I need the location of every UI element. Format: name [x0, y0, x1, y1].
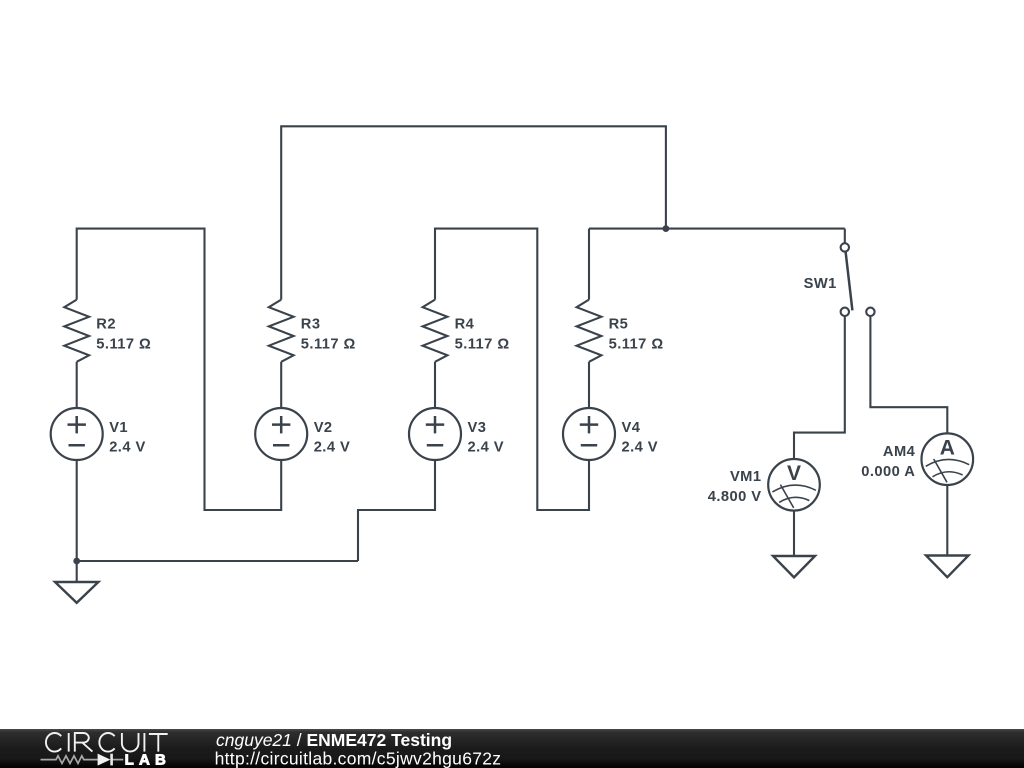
svg-text:A: A [940, 437, 955, 460]
wire VM1 to ground [793, 511, 795, 556]
svg-text:V2: V2 [314, 420, 333, 436]
voltmeter VM1 [768, 459, 820, 511]
svg-text:V1: V1 [109, 420, 128, 436]
wire R5 top lead [588, 229, 590, 300]
svg-text:V4: V4 [622, 420, 641, 436]
svg-text:http://circuitlab.com/c5jwv2hg: http://circuitlab.com/c5jwv2hgu672z [215, 749, 502, 768]
wire R2-top loop to V2 bottom [77, 229, 282, 510]
wire junction to switch common [589, 228, 845, 230]
wire R4-top loop to V4 bottom [435, 229, 589, 510]
svg-text:2.4 V: 2.4 V [314, 439, 351, 455]
wire R3-top to junction (node A) [281, 126, 666, 299]
logo diode triangle [98, 754, 111, 766]
svg-text:cnguye21 / ENME472 Testing: cnguye21 / ENME472 Testing [216, 730, 452, 750]
voltage source V3 [409, 408, 461, 460]
wire R2 bottom to V1 top [76, 362, 78, 409]
wire switch throw2 to AM4 [870, 316, 947, 434]
wire R3 bottom to V2 top [280, 362, 282, 409]
wire R4 bottom to V3 top [434, 362, 436, 409]
svg-text:5.117 Ω: 5.117 Ω [455, 336, 510, 352]
svg-text:V: V [787, 462, 801, 485]
svg-text:AM4: AM4 [883, 444, 916, 460]
switch SW1 [841, 243, 875, 316]
svg-text:2.4 V: 2.4 V [622, 439, 659, 455]
ground VM1 [773, 556, 815, 577]
node A junction dot [663, 225, 670, 232]
svg-text:2.4 V: 2.4 V [468, 439, 505, 455]
wire V3 bottom to ground rail [358, 460, 435, 561]
ground main [55, 582, 98, 603]
resistor R2 [64, 300, 89, 362]
svg-text:VM1: VM1 [730, 469, 762, 485]
svg-text:5.117 Ω: 5.117 Ω [301, 336, 356, 352]
ammeter AM4 [922, 433, 974, 485]
svg-text:LAB: LAB [125, 751, 171, 768]
svg-text:2.4 V: 2.4 V [109, 439, 146, 455]
ground AM4 [926, 556, 969, 578]
logo CIRCUIT [46, 733, 168, 752]
resistor R4 [423, 300, 448, 362]
wire R5 bottom to V4 top [588, 362, 590, 409]
wire AM4 to ground [946, 485, 948, 556]
svg-text:R5: R5 [609, 317, 629, 333]
node ground junction dot [73, 558, 80, 565]
svg-text:R4: R4 [455, 317, 475, 333]
svg-text:R3: R3 [301, 317, 321, 333]
voltage source V1 [51, 408, 103, 460]
svg-text:SW1: SW1 [804, 276, 837, 292]
wire ground rail [77, 560, 358, 562]
svg-text:5.117 Ω: 5.117 Ω [96, 336, 151, 352]
svg-text:0.000 A: 0.000 A [861, 464, 915, 480]
wire V1 bottom to ground [76, 460, 78, 582]
svg-text:V3: V3 [468, 420, 487, 436]
resistor R5 [577, 300, 602, 362]
svg-text:5.117 Ω: 5.117 Ω [609, 336, 664, 352]
logo resistor-diode wire [41, 754, 124, 766]
voltage source V4 [563, 408, 615, 460]
voltage source V2 [255, 408, 307, 460]
svg-text:4.800 V: 4.800 V [708, 489, 762, 505]
wire switch common feed [844, 229, 846, 244]
wire switch throw1 to VM1 [794, 316, 845, 460]
svg-text:R2: R2 [96, 317, 116, 333]
resistor R3 [269, 300, 294, 362]
